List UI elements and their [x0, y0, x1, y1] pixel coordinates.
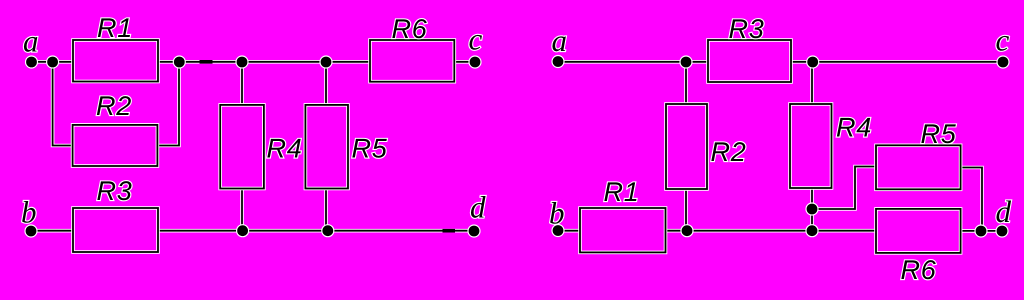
- svg-text:b: b: [549, 196, 565, 231]
- node b terminal: [24, 224, 37, 237]
- svg-text:d: d: [996, 194, 1012, 229]
- wire R4 bottom to bottom rail: [240, 189, 244, 231]
- junction dot above R4: [806, 55, 819, 68]
- wire R4 bottom to junction: [810, 188, 814, 231]
- wire node down to R4 top: [810, 62, 814, 104]
- resistor R6: [876, 209, 961, 253]
- svg-text:R5: R5: [352, 134, 388, 164]
- wire thick segment top: [200, 60, 213, 64]
- svg-text:R6: R6: [901, 255, 937, 285]
- svg-text:a: a: [23, 24, 39, 59]
- node a terminal: [551, 55, 564, 68]
- svg-text:a: a: [552, 23, 568, 58]
- wire node down to R2 top: [684, 62, 688, 104]
- wire R6 right to c: [454, 60, 475, 64]
- junction dot R1 right: [173, 55, 186, 68]
- svg-text:b: b: [21, 195, 37, 230]
- wire node down to R4 top: [240, 62, 244, 105]
- junction dot right of a: [46, 55, 59, 68]
- junction dot below R5: [321, 224, 334, 237]
- wire R6 right to d: [961, 229, 1002, 233]
- junction dot right of R6: [974, 224, 987, 237]
- node d terminal: [995, 224, 1008, 237]
- svg-text:R1: R1: [97, 13, 133, 43]
- resistor R1: [580, 208, 666, 252]
- node d terminal: [467, 224, 480, 237]
- svg-text:R2: R2: [711, 137, 747, 167]
- node c terminal: [996, 55, 1009, 68]
- wire b to R1 left: [558, 229, 580, 233]
- wire jog junction to R5 left: [812, 167, 876, 210]
- resistor R2: [73, 125, 158, 166]
- resistor R3: [73, 208, 158, 252]
- svg-text:R2: R2: [96, 91, 132, 121]
- wire R3 right to d: [158, 229, 474, 233]
- wire thick segment bottom: [443, 229, 456, 233]
- svg-text:R4: R4: [267, 134, 303, 164]
- junction dot above R4: [235, 55, 248, 68]
- svg-text:R5: R5: [921, 119, 957, 149]
- resistor R5: [305, 105, 348, 189]
- resistor R6: [370, 40, 454, 82]
- resistor R5: [876, 145, 961, 189]
- svg-text:R4: R4: [836, 113, 872, 143]
- svg-text:c: c: [996, 23, 1010, 58]
- wire a to R3 left: [558, 60, 708, 64]
- junction dot above R5: [319, 55, 332, 68]
- wire R5 right down to bottom rail: [961, 168, 982, 232]
- wire left branch down to R2 left: [53, 62, 73, 146]
- svg-text:R3: R3: [729, 14, 765, 44]
- wire a to R1 left: [31, 60, 73, 64]
- wire node down to R5 top: [324, 62, 328, 105]
- node a terminal: [25, 55, 38, 68]
- wire b to R3 left: [31, 229, 73, 233]
- wire R2 right up to node: [157, 62, 179, 146]
- svg-text:d: d: [470, 190, 486, 225]
- resistor R4: [790, 104, 832, 188]
- resistor R2: [666, 104, 707, 189]
- junction dot below R4: [236, 224, 249, 237]
- resistor R1: [73, 40, 158, 82]
- wire R3 right to c: [791, 60, 1003, 64]
- resistor R3: [708, 40, 791, 82]
- junction dot below R2: [680, 224, 693, 237]
- svg-text:c: c: [469, 22, 483, 57]
- svg-text:R3: R3: [97, 176, 133, 206]
- junction dot bottom rail at R4: [805, 224, 818, 237]
- junction dot above R2: [679, 55, 692, 68]
- node c terminal: [468, 55, 481, 68]
- node b terminal: [551, 224, 564, 237]
- junction dot R4 bottom: [805, 202, 818, 215]
- resistor R4: [220, 105, 264, 189]
- wire R2 bottom to bottom rail: [684, 189, 688, 231]
- wire R1 right to R6 left: [158, 60, 370, 64]
- svg-text:R6: R6: [392, 14, 428, 44]
- svg-text:R1: R1: [604, 177, 640, 207]
- wire R1 right to R6 left: [666, 229, 877, 233]
- wire R5 bottom to bottom rail: [324, 189, 328, 231]
